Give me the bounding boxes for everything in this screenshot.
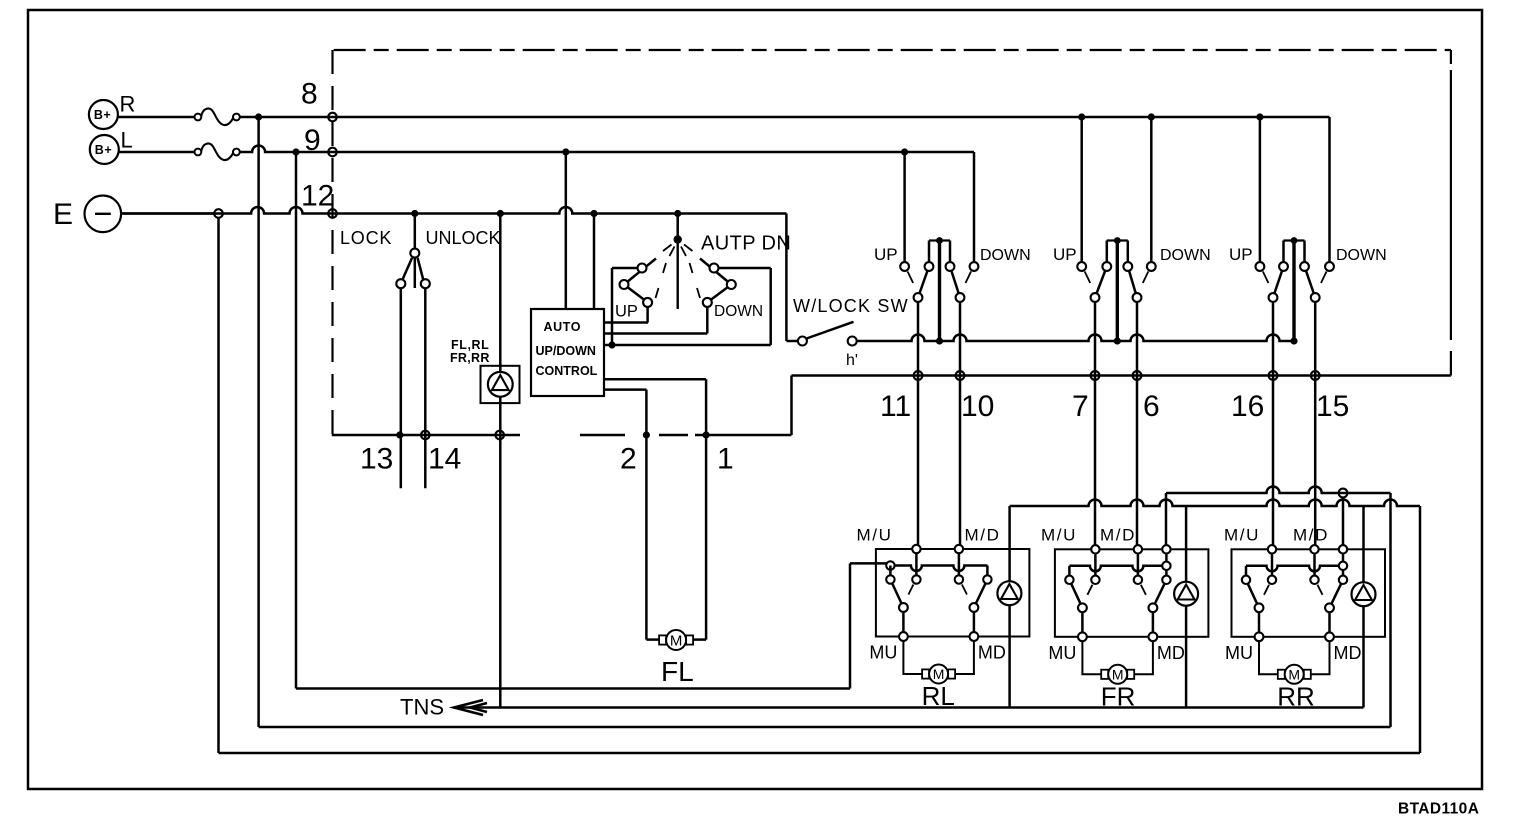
svg-text:MU: MU xyxy=(1225,643,1253,663)
svg-text:UP: UP xyxy=(1229,245,1253,264)
svg-text:AUTP DN: AUTP DN xyxy=(701,233,791,255)
RR switch arm right xyxy=(1330,580,1344,608)
TNS arrowhead xyxy=(454,700,483,715)
ground symbol E xyxy=(53,196,121,233)
harness dash-dot boundary top xyxy=(334,49,1451,51)
switch terminals xyxy=(1077,262,1155,302)
window switch common bridge xyxy=(1284,237,1305,341)
W/LOCK switch xyxy=(798,322,857,346)
relay box RR xyxy=(1232,549,1386,637)
svg-text:FL: FL xyxy=(661,656,694,687)
svg-text:M: M xyxy=(670,632,683,649)
RR bar terminals xyxy=(1339,562,1347,570)
junction battery R output xyxy=(255,113,262,120)
switch arm UP xyxy=(1273,267,1284,298)
relay box FR xyxy=(1055,549,1209,637)
svg-text:UP: UP xyxy=(1053,245,1077,264)
svg-text:7: 7 xyxy=(1072,390,1089,423)
svg-text:DOWN: DOWN xyxy=(1160,247,1211,264)
TNS wire xyxy=(456,706,1364,709)
RL motor wires xyxy=(903,641,924,674)
junction lock switch feed xyxy=(411,210,418,217)
harness dashed left edge (connector column) xyxy=(331,50,333,435)
FR common bar xyxy=(1068,566,1071,580)
wire down from UP contact xyxy=(1272,302,1275,549)
RR moving contact drops xyxy=(1258,612,1261,637)
RL left input terminal xyxy=(886,561,894,569)
RL MU/MD terminals xyxy=(899,632,908,641)
window motors symbol (triangle in circle) xyxy=(488,372,513,397)
switch arm UP open stroke xyxy=(1085,272,1091,284)
AUTP DN fan dashes xyxy=(656,245,701,299)
RR motor wires xyxy=(1259,641,1280,674)
switch terminals xyxy=(1256,262,1334,302)
svg-text:DOWN: DOWN xyxy=(1336,247,1387,264)
FR arm open stroke left xyxy=(1087,585,1092,595)
connector pins y377 xyxy=(1269,371,1278,380)
window switch feed DOWN side xyxy=(1328,117,1331,262)
ground bus y506 (relay indicators) xyxy=(1010,500,1420,507)
connector bus y435 (13 14 2 1 pins) xyxy=(332,434,792,437)
wire y493 corner down to battery R return xyxy=(1389,493,1392,727)
wire FR relay common drop xyxy=(1165,493,1168,549)
wire down from DOWN contact xyxy=(1136,302,1139,549)
wire control to UP box xyxy=(604,321,648,324)
wire 9 feed down to control box xyxy=(565,152,568,309)
svg-text:M/D: M/D xyxy=(965,525,1001,544)
RR arm open stroke left xyxy=(1264,585,1269,595)
window switch feed DOWN side xyxy=(1150,117,1153,262)
svg-text:R: R xyxy=(120,92,136,117)
svg-text:2: 2 xyxy=(620,443,637,476)
motor FR xyxy=(1101,670,1108,679)
junction on W/LOCK wire xyxy=(1290,337,1297,344)
RL moving contact drops xyxy=(902,612,905,637)
RR MU/MD terminals xyxy=(1255,632,1264,641)
connector wire y377 (11 10 7 6 16 15 pins) xyxy=(792,374,1451,377)
wire control to DOWN box bottom xyxy=(604,344,771,347)
RR indicator vertical xyxy=(1362,506,1365,708)
motor RR xyxy=(1278,670,1285,679)
svg-text:14: 14 xyxy=(428,443,461,476)
RR common terminal vertical xyxy=(1342,549,1345,580)
FR bar terminals xyxy=(1162,562,1170,570)
svg-text:M/D: M/D xyxy=(1100,526,1136,545)
svg-text:MU: MU xyxy=(1048,643,1076,663)
wire 12 / earth bus xyxy=(121,207,786,214)
switch arm DOWN xyxy=(950,267,960,298)
switch arm DOWN open stroke xyxy=(1321,272,1327,284)
svg-text:M: M xyxy=(1288,666,1300,682)
FR contact terminals xyxy=(1065,545,1170,612)
ground return wire (E) down and right xyxy=(217,218,220,753)
RR common bar xyxy=(1245,566,1248,580)
switch arm UP xyxy=(918,267,929,298)
switch arm UP xyxy=(1095,267,1107,298)
switch arm UP lower xyxy=(624,285,648,303)
junction pin 1 on bus xyxy=(703,431,710,438)
junction at UP box left edge xyxy=(608,341,615,348)
junction 13 on bus xyxy=(396,431,403,438)
connector pin 14 on bus xyxy=(421,431,430,440)
FR MU/MD terminals xyxy=(1078,632,1087,641)
switch arm DOWN open stroke xyxy=(1143,272,1149,284)
window switch feed UP side xyxy=(1256,113,1263,120)
switch arm DOWN lower xyxy=(707,285,731,303)
AUTP DN switch pivot xyxy=(674,214,682,310)
svg-text:M: M xyxy=(933,666,945,682)
relay common feed wire y493 (from battery R) xyxy=(1166,487,1391,494)
wire 8 (battery R feed) xyxy=(240,116,1330,119)
svg-text:12: 12 xyxy=(301,180,334,213)
FR indicator (triangle) xyxy=(1174,582,1198,606)
svg-text:B+: B+ xyxy=(95,143,112,157)
wire down from UP contact xyxy=(917,302,920,549)
window switch feed UP side xyxy=(1078,113,1085,120)
FR motor wires xyxy=(1082,641,1103,674)
motor RL xyxy=(922,669,929,678)
FR indicator vertical xyxy=(1185,506,1188,708)
junction pin 2 on bus xyxy=(643,431,650,438)
fuse L xyxy=(201,144,233,161)
svg-text:6: 6 xyxy=(1143,390,1160,423)
wire down from DOWN contact xyxy=(1314,302,1317,549)
svg-text:CONTROL: CONTROL xyxy=(536,364,598,378)
control output wire 1 xyxy=(604,378,706,381)
window motors symbol box xyxy=(481,366,520,403)
wire 12 feed down to control box xyxy=(593,214,596,310)
junction group2 DOWN feed xyxy=(1148,113,1155,120)
svg-text:15: 15 xyxy=(1316,390,1349,423)
wire 13 (lock) xyxy=(400,288,403,488)
svg-text:M/U: M/U xyxy=(1041,526,1077,545)
svg-text:M/U: M/U xyxy=(1224,526,1260,545)
svg-text:MD: MD xyxy=(978,643,1006,663)
RR switch arm left xyxy=(1246,580,1259,608)
junction FL.RL wire on bus12 xyxy=(497,210,504,217)
connector pin E wire xyxy=(214,209,223,218)
wire 14 (unlock) xyxy=(424,288,427,488)
wire bus-1 corner up to connector 377 xyxy=(790,376,793,436)
svg-text:UP: UP xyxy=(874,245,898,264)
svg-text:UNLOCK: UNLOCK xyxy=(426,228,501,248)
RR indicator (triangle) xyxy=(1352,582,1376,606)
window switch common bridge xyxy=(929,237,950,341)
junction on W/LOCK wire xyxy=(936,337,943,344)
window switch feed DOWN side xyxy=(973,152,976,262)
window switch feed UP side xyxy=(901,148,908,155)
svg-text:M/U: M/U xyxy=(857,525,893,544)
connector pins on dashed column (wires 8 9 12) xyxy=(328,113,337,122)
svg-text:M: M xyxy=(1112,666,1124,682)
svg-text:FL,RL: FL,RL xyxy=(451,338,489,352)
RR contact verticals xyxy=(1271,549,1274,580)
junction control box feed from wire 9 xyxy=(562,148,569,155)
wire 12 corner down to W/LOCK switch xyxy=(785,214,788,342)
window switch common bridge xyxy=(1107,237,1128,341)
junction control feed from bus 12 xyxy=(590,210,597,217)
wire up to RL contact xyxy=(849,563,852,688)
RL contact terminals xyxy=(886,545,991,612)
svg-text:1: 1 xyxy=(717,443,734,476)
RL switch arm right xyxy=(974,580,988,608)
harness boundary right edge xyxy=(1450,50,1452,64)
RL switch arm left xyxy=(890,580,903,608)
switch terminals xyxy=(900,262,978,302)
svg-text:LOCK: LOCK xyxy=(340,228,392,248)
battery R return wire down and right xyxy=(257,117,260,727)
RL common bar xyxy=(890,566,987,572)
lock/unlock switch xyxy=(396,214,430,289)
fuse R xyxy=(201,109,233,126)
battery B+ L xyxy=(90,128,133,165)
DOWN box right edge xyxy=(769,268,772,345)
switch arm DOWN open stroke xyxy=(966,272,972,284)
wire y506 corner down to ground return xyxy=(1419,506,1422,753)
FR moving contact drops xyxy=(1081,612,1084,637)
RL indicator vertical xyxy=(1008,506,1011,708)
svg-text:BTAD110A: BTAD110A xyxy=(1398,801,1479,818)
UP box xyxy=(612,268,771,345)
svg-text:MD: MD xyxy=(1334,643,1362,663)
svg-text:UP/DOWN: UP/DOWN xyxy=(536,344,596,358)
svg-text:M/D: M/D xyxy=(1293,526,1329,545)
connector ring RR relay feed xyxy=(1339,489,1348,498)
AUTO UP/DOWN CONTROL unit xyxy=(531,309,604,396)
svg-text:DOWN: DOWN xyxy=(714,303,763,320)
svg-text:UP: UP xyxy=(615,303,638,321)
battery L wire down to RL window circuit xyxy=(295,152,298,689)
RL arm open stroke left xyxy=(908,585,913,595)
connector pins y377 xyxy=(1091,371,1100,380)
junction on W/LOCK wire xyxy=(1114,337,1121,344)
svg-text:h': h' xyxy=(846,352,858,369)
RR contact terminals xyxy=(1242,545,1347,612)
FR switch arm left xyxy=(1069,580,1082,608)
svg-text:L: L xyxy=(121,128,133,153)
svg-text:11: 11 xyxy=(880,390,911,423)
wire down to RR relay common xyxy=(1342,497,1345,549)
svg-text:DOWN: DOWN xyxy=(980,247,1031,264)
RL indicator (triangle) xyxy=(997,581,1021,605)
connector pin on bus (FL,RL wire) xyxy=(495,431,504,440)
svg-text:W/LOCK SW: W/LOCK SW xyxy=(793,296,909,316)
wire down from DOWN contact xyxy=(959,302,962,549)
svg-text:TNS: TNS xyxy=(400,695,444,720)
wire down from UP contact xyxy=(1094,302,1097,549)
switch arm DOWN xyxy=(1305,267,1316,298)
junction AUTP DN pivot feed xyxy=(674,210,681,217)
relay box RL xyxy=(876,549,1030,637)
connector pins y377 xyxy=(914,371,923,380)
svg-text:AUTO: AUTO xyxy=(544,320,582,334)
RL arm open stroke right xyxy=(962,585,967,595)
RL contact verticals xyxy=(915,549,918,580)
FR contact verticals xyxy=(1094,549,1097,580)
svg-text:MD: MD xyxy=(1157,643,1185,663)
battery B+ R xyxy=(89,92,135,130)
wire control to DOWN contact xyxy=(604,332,707,335)
switch arm UP side xyxy=(624,259,656,285)
wire battery L to fuse xyxy=(118,151,194,154)
wire W/LOCK common at y341 xyxy=(852,335,1294,342)
switch arm DOWN xyxy=(1128,267,1137,298)
switch arm UP open stroke xyxy=(1263,272,1269,284)
svg-text:MU: MU xyxy=(869,643,897,663)
svg-text:FR,RR: FR,RR xyxy=(450,351,490,365)
svg-text:13: 13 xyxy=(360,443,393,476)
junction battery L output xyxy=(292,148,299,155)
switch arm DOWN side xyxy=(700,259,731,285)
RR arm open stroke right xyxy=(1318,585,1323,595)
svg-text:16: 16 xyxy=(1231,390,1264,423)
FR common terminal vertical xyxy=(1165,549,1168,580)
svg-text:8: 8 xyxy=(301,78,318,111)
svg-text:B+: B+ xyxy=(94,108,111,122)
FR switch arm right xyxy=(1153,580,1167,608)
FL motor wires xyxy=(646,638,659,641)
svg-text:E: E xyxy=(53,198,73,231)
svg-text:10: 10 xyxy=(961,390,994,423)
contact circles AUTP DN xyxy=(620,264,736,307)
control output wire 2 xyxy=(604,388,646,391)
wire 9 (battery L feed) xyxy=(240,146,974,152)
FR arm open stroke right xyxy=(1141,585,1146,595)
wire battery R to fuse xyxy=(118,116,195,119)
wire E to bus xyxy=(121,212,214,215)
wire FL,RL symbol drop xyxy=(499,214,502,708)
svg-text:9: 9 xyxy=(304,124,321,157)
switch arm UP open stroke xyxy=(908,272,914,284)
motor FL xyxy=(659,635,666,644)
